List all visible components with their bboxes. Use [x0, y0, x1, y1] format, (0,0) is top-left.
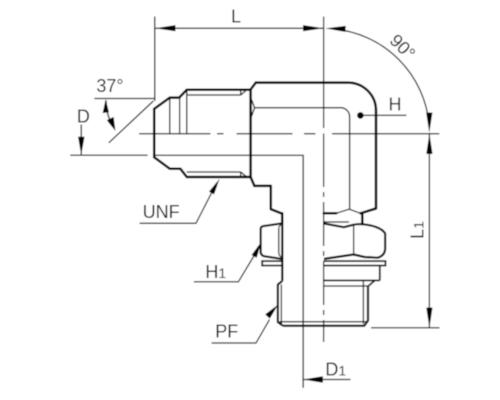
37-degree angle arc with arrows — [106, 101, 114, 129]
neck below washer (right) — [324, 266, 380, 281]
locknut H1 (left part) — [261, 223, 284, 259]
svg-text:L: L — [231, 6, 241, 26]
top 37-deg cone, flare cylinder, chamfer, thread crest — [154, 90, 250, 109]
UNF thread root lines and runout (thin) — [170, 90, 247, 177]
body hex chamfer V (thin) — [324, 209, 361, 222]
svg-text:37°: 37° — [96, 76, 123, 96]
inner corner line A (upper bore silhouette) — [251, 99, 349, 209]
svg-text:D: D — [77, 107, 90, 127]
dimension D1 — [303, 379, 350, 381]
dimension L — [155, 17, 324, 102]
svg-text:H1: H1 — [205, 262, 226, 282]
horizontal centerline (left port axis) — [139, 133, 439, 135]
bottom cone, cylinder, chamfer, thread crest — [154, 157, 250, 177]
washer (left part) — [262, 261, 283, 266]
elbow body: left face with chamfers — [251, 83, 256, 186]
37-degree reference line — [94, 98, 155, 100]
locknut H1 (right part) — [324, 223, 385, 259]
inner corner line B (lower bore silhouette, doubles as D1 extension) — [155, 155, 303, 387]
male UNF end: tip face — [154, 90, 250, 177]
leader H with dot — [357, 112, 364, 119]
90-degree arc dimension — [333, 29, 430, 125]
37-degree flare cone construction line — [109, 101, 154, 143]
dimension D — [70, 154, 147, 156]
svg-text:UNF: UNF — [143, 202, 180, 222]
PF thread (right) + bottom face — [283, 286, 368, 326]
elbow body: outer profile (top edge, corner arc, right edge) — [254, 83, 376, 224]
svg-text:PF: PF — [215, 321, 238, 341]
PF thread (left) — [278, 281, 283, 326]
svg-text:L1: L1 — [407, 221, 427, 239]
washer (right part) — [324, 261, 386, 266]
band edge line (left half termination of nut/washer stack) — [281, 213, 283, 281]
dimension L1 — [371, 327, 440, 329]
svg-text:H: H — [389, 94, 402, 114]
vertical centerline (bottom port axis) — [323, 17, 325, 343]
svg-text:D1: D1 — [325, 359, 346, 379]
